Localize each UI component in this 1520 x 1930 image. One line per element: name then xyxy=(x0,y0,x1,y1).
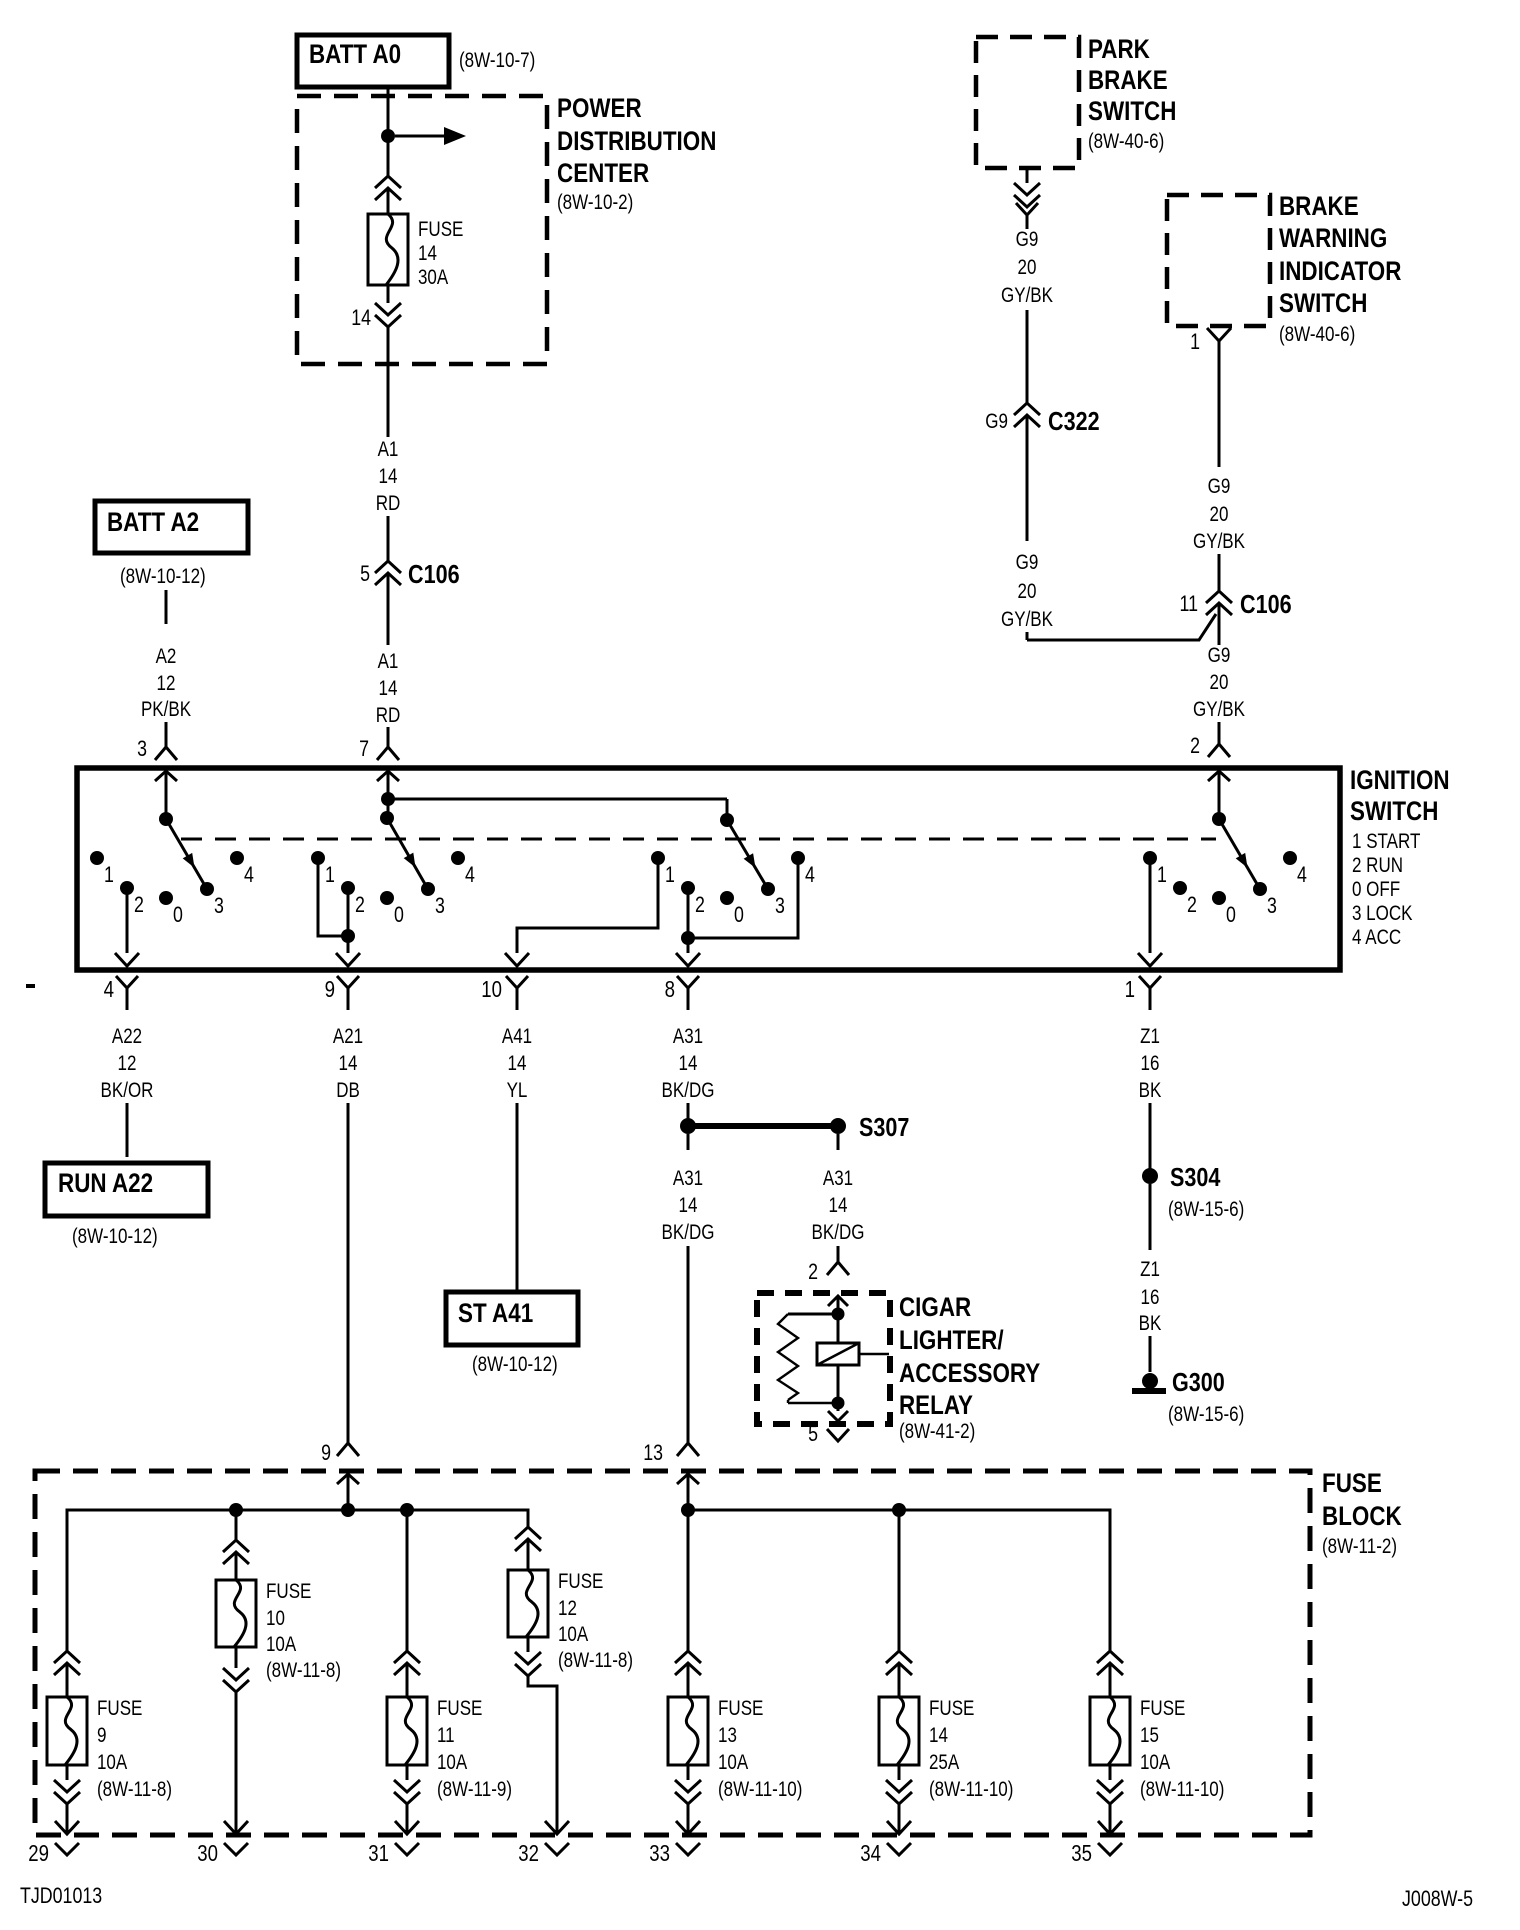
fuse 11 wire to box xyxy=(406,1663,409,1697)
label FUSE 14 25A (8W-11-10) xyxy=(929,1697,1013,1801)
svg-text:YL: YL xyxy=(507,1079,528,1102)
svg-text:13: 13 xyxy=(643,1440,663,1465)
svg-text:(8W-40-6): (8W-40-6) xyxy=(1279,323,1355,346)
wire to C322 xyxy=(1026,310,1029,403)
ignition sw section3 contacts xyxy=(651,851,815,927)
svg-text:32: 32 xyxy=(518,1840,539,1866)
svg-text:7: 7 xyxy=(359,736,369,761)
ignition sw section2 entry male xyxy=(377,771,399,818)
svg-text:BK: BK xyxy=(1139,1079,1162,1102)
fuse 10 wire from bus xyxy=(235,1510,238,1540)
pin label 5 (relay) xyxy=(808,1421,818,1446)
fuse 14 wire from bus xyxy=(898,1510,901,1651)
svg-text:5: 5 xyxy=(808,1421,818,1446)
svg-text:3: 3 xyxy=(214,893,224,918)
fuse 9 wire to box xyxy=(66,1663,69,1697)
svg-text:1: 1 xyxy=(325,862,335,887)
svg-text:10A: 10A xyxy=(718,1751,748,1774)
fuse 10 wire to exit 30 xyxy=(224,1692,248,1834)
wire label G9 20 GY/BK (above ignition) xyxy=(1193,644,1245,721)
svg-text:GY/BK: GY/BK xyxy=(1193,530,1245,553)
svg-text:(8W-15-6): (8W-15-6) xyxy=(1168,1198,1244,1221)
svg-text:20: 20 xyxy=(1018,580,1037,603)
label FUSE 13 10A (8W-11-10) xyxy=(718,1697,802,1801)
svg-text:(8W-11-2): (8W-11-2) xyxy=(1322,1535,1397,1558)
svg-text:11: 11 xyxy=(437,1724,455,1747)
svg-text:FUSE: FUSE xyxy=(97,1697,142,1720)
exit 32 connector xyxy=(518,1840,569,1866)
fuse 11 wire from bus xyxy=(406,1510,409,1651)
svg-text:RD: RD xyxy=(376,704,401,727)
wire label A31 14 BK/DG (left branch) xyxy=(662,1167,715,1244)
svg-text:0: 0 xyxy=(1226,902,1236,927)
svg-text:4: 4 xyxy=(1297,862,1307,887)
svg-text:8: 8 xyxy=(665,976,675,1002)
label POWER DISTRIBUTION CENTER xyxy=(557,93,716,214)
ignition sw section2 pivot xyxy=(380,811,394,825)
ignition sw section3 feed xyxy=(726,799,729,820)
connector male into fuse (double chevron) xyxy=(375,176,401,200)
svg-text:A31: A31 xyxy=(673,1025,703,1048)
pin label 7 xyxy=(359,736,369,761)
exit 30 connector xyxy=(197,1840,248,1866)
bus junction fuse10 xyxy=(229,1503,243,1517)
bus junction entry13-fuse13 xyxy=(681,1503,695,1517)
svg-text:A31: A31 xyxy=(823,1167,853,1190)
ignition sw section4 wire 1 to exit 1 xyxy=(1138,858,1162,966)
wire label A31 14 BK/DG xyxy=(662,1025,715,1102)
svg-text:J008W-5: J008W-5 xyxy=(1402,1886,1473,1911)
reference (8W-15-6) G300 xyxy=(1168,1403,1244,1426)
node label box BATT A0 xyxy=(297,35,449,87)
svg-text:POWER: POWER xyxy=(557,93,642,123)
wire label A21 14 DB xyxy=(333,1025,363,1102)
svg-text:3: 3 xyxy=(1267,893,1277,918)
label S304 xyxy=(1170,1162,1221,1192)
label BRAKE WARNING INDICATOR SWITCH xyxy=(1279,191,1401,346)
svg-text:10A: 10A xyxy=(266,1633,296,1656)
fuse 13 connector lower xyxy=(675,1780,701,1804)
svg-text:BLOCK: BLOCK xyxy=(1322,1501,1402,1531)
fuse 10 wire to box xyxy=(235,1552,238,1580)
wire below park brake switch xyxy=(1026,168,1029,183)
ignition sw section3 wiper to 3 xyxy=(727,820,765,884)
fuse 14 wire to exit 34 xyxy=(887,1804,911,1834)
fuse 12 wire jog to exit 32 xyxy=(528,1676,569,1834)
fuse 14 xyxy=(879,1697,919,1765)
exit pin 4 connector xyxy=(104,976,138,1010)
svg-text:14: 14 xyxy=(829,1194,848,1217)
svg-text:0 OFF: 0 OFF xyxy=(1352,878,1400,901)
svg-text:20: 20 xyxy=(1210,671,1229,694)
ignition sw section2 junction xyxy=(381,792,395,806)
svg-text:9: 9 xyxy=(321,1440,331,1465)
svg-text:S304: S304 xyxy=(1170,1162,1221,1192)
svg-text:INDICATOR: INDICATOR xyxy=(1279,256,1401,286)
exit pin 9 connector xyxy=(325,976,359,1010)
bus junction fuse14 xyxy=(892,1503,906,1517)
svg-text:(8W-10-12): (8W-10-12) xyxy=(472,1353,558,1376)
exit 35 connector xyxy=(1071,1840,1122,1866)
svg-text:1: 1 xyxy=(104,862,114,887)
ignition sw section3 pivot xyxy=(720,813,734,827)
relay pin2 male xyxy=(828,1296,848,1314)
svg-text:(8W-10-7): (8W-10-7) xyxy=(459,49,535,72)
svg-text:20: 20 xyxy=(1018,256,1037,279)
fuse 11 connector upper xyxy=(394,1651,420,1675)
relay top junction xyxy=(832,1308,845,1321)
junction node in PDC xyxy=(381,129,395,143)
ground G300 xyxy=(1132,1373,1166,1394)
svg-text:2: 2 xyxy=(1187,892,1197,917)
svg-text:0: 0 xyxy=(734,902,744,927)
svg-text:2: 2 xyxy=(695,892,705,917)
svg-text:FUSE: FUSE xyxy=(558,1570,603,1593)
label PARK BRAKE SWITCH xyxy=(1088,34,1176,153)
fuse 15 wire to box xyxy=(1109,1663,1112,1697)
svg-text:TJD01013: TJD01013 xyxy=(20,1883,102,1908)
fuse 12 xyxy=(508,1570,548,1637)
svg-text:14: 14 xyxy=(339,1052,358,1075)
svg-text:LIGHTER/: LIGHTER/ xyxy=(899,1325,1004,1355)
svg-text:3: 3 xyxy=(775,893,785,918)
wire below fuse 14 xyxy=(387,285,390,303)
connector female pin 3 xyxy=(155,747,177,760)
connector female relay pin 5 xyxy=(827,1429,849,1441)
svg-text:A41: A41 xyxy=(502,1025,532,1048)
svg-text:Z1: Z1 xyxy=(1140,1025,1160,1048)
exit 31 connector xyxy=(368,1840,419,1866)
svg-text:4: 4 xyxy=(104,976,115,1002)
connector female below brake warning switch xyxy=(1207,328,1231,351)
relay resistor xyxy=(778,1314,832,1403)
connector female pin 7 xyxy=(377,747,399,760)
svg-text:35: 35 xyxy=(1071,1840,1092,1866)
pin label 1 (brake warning) xyxy=(1190,329,1200,354)
svg-text:BRAKE: BRAKE xyxy=(1279,191,1359,221)
svg-text:Z1: Z1 xyxy=(1140,1258,1160,1281)
svg-text:SWITCH: SWITCH xyxy=(1088,96,1176,126)
connector female pin 2 xyxy=(1208,744,1230,757)
ignition sw section2 wiper to 3 xyxy=(387,818,425,884)
svg-text:FUSE: FUSE xyxy=(929,1697,974,1720)
ignition sw section4 pivot xyxy=(1212,812,1226,826)
svg-text:(8W-11-8): (8W-11-8) xyxy=(97,1778,172,1801)
svg-text:4: 4 xyxy=(805,862,815,887)
label FUSE 10 10A (8W-11-8) xyxy=(266,1580,341,1682)
connector C106 (pin 5) xyxy=(375,561,401,585)
svg-text:DB: DB xyxy=(336,1079,360,1102)
fuse 13 wire to box xyxy=(687,1663,690,1697)
svg-text:12: 12 xyxy=(157,672,176,695)
exit pin 10 connector xyxy=(481,976,528,1010)
fuse 15 connector lower xyxy=(1097,1780,1123,1804)
ignition sw section4 wiper to 3 xyxy=(1219,819,1257,884)
reference (8W-10-12) under RUN A22 xyxy=(72,1225,158,1248)
fuse block right bus xyxy=(688,1510,1110,1651)
wire label G9 20 GY/BK (right) xyxy=(1193,475,1245,553)
pin label 11 xyxy=(1180,591,1199,616)
wire S304 to G300 xyxy=(1149,1184,1152,1250)
label FUSE BLOCK xyxy=(1322,1468,1402,1558)
wire PDC to C106 xyxy=(387,327,390,437)
pin label 2 xyxy=(1190,733,1200,758)
node label box ST A41 xyxy=(446,1292,578,1345)
svg-text:34: 34 xyxy=(860,1840,881,1866)
svg-text:12: 12 xyxy=(558,1597,577,1620)
label FUSE 11 10A (8W-11-9) xyxy=(437,1697,512,1801)
ignition switch box xyxy=(77,768,1340,970)
fuse 14 30A (PDC) xyxy=(368,214,408,285)
relay coil xyxy=(817,1320,889,1397)
connector female relay pin 2 xyxy=(827,1262,849,1275)
svg-text:(8W-11-10): (8W-11-10) xyxy=(929,1778,1013,1801)
pin label 2 (relay) xyxy=(808,1259,818,1284)
fuse 11 xyxy=(387,1697,427,1765)
svg-text:5: 5 xyxy=(360,561,370,586)
svg-text:25A: 25A xyxy=(929,1751,959,1774)
svg-text:G9: G9 xyxy=(1208,475,1231,498)
splice S304 xyxy=(1142,1168,1158,1184)
cigar lighter relay dashed box xyxy=(757,1293,890,1424)
fuse block left bus xyxy=(67,1510,528,1651)
fuse 13 xyxy=(668,1697,708,1765)
exit 33 connector xyxy=(649,1840,700,1866)
wire label G9 20 GY/BK (below C322) xyxy=(1001,551,1053,631)
connector out of PDC (double chevron down) xyxy=(375,303,401,327)
svg-text:31: 31 xyxy=(368,1840,389,1866)
wire into ignition pin 3 xyxy=(165,722,168,747)
svg-text:S307: S307 xyxy=(859,1112,909,1142)
fuse 9 connector lower xyxy=(54,1780,80,1804)
ignition sw section1 wire 2 to exit 4 xyxy=(115,888,139,966)
wire label A1 14 RD xyxy=(376,438,401,515)
svg-text:14: 14 xyxy=(679,1052,698,1075)
wire label Z1 16 BK (lower) xyxy=(1139,1258,1162,1335)
svg-text:2: 2 xyxy=(808,1259,818,1284)
label G300 xyxy=(1172,1367,1225,1397)
wire into G300 xyxy=(1149,1336,1152,1372)
svg-text:2 RUN: 2 RUN xyxy=(1352,854,1403,877)
svg-text:2: 2 xyxy=(134,892,144,917)
svg-text:FUSE: FUSE xyxy=(718,1697,763,1720)
fuse 12 connector lower xyxy=(515,1652,541,1676)
svg-text:C106: C106 xyxy=(1240,589,1292,619)
svg-text:13: 13 xyxy=(718,1724,737,1747)
wire label A1 14 RD (lower) xyxy=(376,650,401,727)
svg-text:BATT A0: BATT A0 xyxy=(309,39,401,69)
label FUSE 9 10A (8W-11-8) xyxy=(97,1697,172,1801)
wire elbow to C106 pin 11 xyxy=(1027,614,1216,640)
wire C106 to ignition switch xyxy=(387,573,390,645)
svg-text:2: 2 xyxy=(1190,733,1200,758)
svg-text:4: 4 xyxy=(244,862,254,887)
svg-text:(8W-10-2): (8W-10-2) xyxy=(557,191,633,214)
svg-text:10A: 10A xyxy=(97,1751,127,1774)
fuse 10 connector lower xyxy=(223,1668,249,1692)
svg-text:(8W-11-8): (8W-11-8) xyxy=(558,1649,633,1672)
svg-text:FUSE: FUSE xyxy=(1322,1468,1382,1498)
reference (8W-10-12) under BATT A2 xyxy=(120,565,206,588)
ignition sw section2 feed line to section3 xyxy=(388,798,727,801)
svg-text:1: 1 xyxy=(665,862,675,887)
sheet number J008W-5 xyxy=(1402,1886,1473,1911)
svg-text:G300: G300 xyxy=(1172,1367,1225,1397)
relay bottom junction xyxy=(832,1397,845,1410)
wire to S304 xyxy=(1149,1103,1152,1170)
svg-text:GY/BK: GY/BK xyxy=(1001,284,1053,307)
fuse 12 connector upper xyxy=(515,1527,541,1551)
label S307 xyxy=(859,1112,909,1142)
svg-text:10A: 10A xyxy=(1140,1751,1170,1774)
wire C106 pin 11 to ignition pin 2 xyxy=(1218,603,1221,744)
fuse 10 xyxy=(216,1580,256,1647)
svg-text:3: 3 xyxy=(435,893,445,918)
svg-text:20: 20 xyxy=(1210,503,1229,526)
svg-text:BK/OR: BK/OR xyxy=(101,1079,154,1102)
svg-text:C106: C106 xyxy=(408,559,460,589)
svg-text:RD: RD xyxy=(376,492,401,515)
label C106 xyxy=(408,559,460,589)
fuse 9 connector upper xyxy=(54,1651,80,1675)
fuse 15 wire to exit 35 xyxy=(1098,1804,1122,1834)
svg-text:(8W-15-6): (8W-15-6) xyxy=(1168,1403,1244,1426)
wire A21 to fuse block xyxy=(347,1103,350,1443)
svg-text:0: 0 xyxy=(173,902,183,927)
power distribution center dashed box xyxy=(297,96,547,364)
brake warning indicator switch dashed box xyxy=(1167,195,1270,326)
label switch positions xyxy=(1352,830,1421,949)
svg-text:3: 3 xyxy=(137,736,147,761)
svg-text:9: 9 xyxy=(325,976,335,1002)
svg-text:BATT A2: BATT A2 xyxy=(107,507,199,537)
fuse 15 xyxy=(1090,1697,1130,1765)
exit 29 connector xyxy=(28,1840,79,1866)
svg-text:G9: G9 xyxy=(1016,228,1039,251)
wire S307 down right branch xyxy=(837,1134,840,1150)
svg-text:(8W-41-2): (8W-41-2) xyxy=(899,1420,975,1443)
label FUSE 15 10A (8W-11-10) xyxy=(1140,1697,1224,1801)
svg-text:1: 1 xyxy=(1125,976,1135,1002)
fuse 9 xyxy=(47,1697,87,1765)
ignition sw section1 pivot xyxy=(159,812,173,826)
svg-text:FUSE: FUSE xyxy=(1140,1697,1185,1720)
svg-text:3 LOCK: 3 LOCK xyxy=(1352,902,1413,925)
svg-text:ST A41: ST A41 xyxy=(458,1298,533,1328)
svg-text:RUN A22: RUN A22 xyxy=(58,1168,153,1198)
fuse 13 wire to exit 33 xyxy=(676,1804,700,1834)
svg-text:BK/DG: BK/DG xyxy=(812,1221,865,1244)
wire into ignition pin 7 xyxy=(387,727,390,747)
fuse block entry 13 connector xyxy=(643,1440,699,1510)
svg-text:GY/BK: GY/BK xyxy=(1193,698,1245,721)
svg-text:14: 14 xyxy=(379,677,398,700)
svg-text:(8W-11-10): (8W-11-10) xyxy=(1140,1778,1224,1801)
fuse block entry 9 connector xyxy=(321,1440,359,1510)
svg-text:G9: G9 xyxy=(1208,644,1231,667)
wire S307 down left branch xyxy=(687,1134,690,1150)
fuse 10 wire below xyxy=(235,1647,238,1668)
ignition sw section2 wire 1-2 to exit 9 xyxy=(318,858,360,966)
svg-text:BK: BK xyxy=(1139,1312,1162,1335)
label FUSE 12 10A (8W-11-8) xyxy=(558,1570,633,1672)
svg-text:12: 12 xyxy=(118,1052,137,1075)
arrow to other circuits xyxy=(395,127,466,145)
svg-text:(8W-11-10): (8W-11-10) xyxy=(718,1778,802,1801)
svg-text:14: 14 xyxy=(379,465,398,488)
svg-text:RELAY: RELAY xyxy=(899,1390,973,1420)
svg-text:33: 33 xyxy=(649,1840,670,1866)
label CIGAR LIGHTER ACCESSORY RELAY xyxy=(899,1292,1040,1443)
wire label A31 14 BK/DG (relay branch) xyxy=(812,1167,865,1244)
fuse 13 wire below xyxy=(687,1765,690,1780)
fuse 15 wire below xyxy=(1109,1765,1112,1780)
fuse 11 wire to exit 31 xyxy=(395,1804,419,1834)
fuse block dashed box xyxy=(35,1471,1310,1835)
svg-text:0: 0 xyxy=(394,902,404,927)
splice S307 bus xyxy=(680,1118,846,1134)
wire to connector C106 xyxy=(387,516,390,561)
wire label A41 14 YL xyxy=(502,1025,532,1102)
svg-text:BK/DG: BK/DG xyxy=(662,1079,715,1102)
svg-text:FUSE: FUSE xyxy=(266,1580,311,1603)
pin label 5 xyxy=(360,561,370,586)
svg-text:10A: 10A xyxy=(437,1751,467,1774)
svg-text:29: 29 xyxy=(28,1840,49,1866)
connector C106 pin 11 xyxy=(1206,591,1232,615)
svg-text:A1: A1 xyxy=(378,650,399,673)
exit pin 1 connector xyxy=(1125,976,1161,1010)
fuse 10 connector upper xyxy=(223,1540,249,1564)
drawing number TJD01013 xyxy=(20,1883,102,1908)
svg-text:1: 1 xyxy=(1157,862,1167,887)
fuse 14 connector upper xyxy=(886,1651,912,1675)
label C322 xyxy=(1048,406,1100,436)
svg-text:DISTRIBUTION: DISTRIBUTION xyxy=(557,126,716,156)
svg-text:14: 14 xyxy=(929,1724,948,1747)
svg-text:(8W-11-9): (8W-11-9) xyxy=(437,1778,512,1801)
ignition switch internal dashed line xyxy=(181,838,1216,841)
svg-text:A21: A21 xyxy=(333,1025,363,1048)
svg-text:10: 10 xyxy=(266,1607,285,1630)
node label box RUN A22 xyxy=(45,1163,208,1216)
bus junction fuse11 xyxy=(400,1503,414,1517)
svg-text:WARNING: WARNING xyxy=(1279,223,1387,253)
fuse 12 wire below xyxy=(527,1637,530,1652)
svg-text:PARK: PARK xyxy=(1088,34,1150,64)
connector C322 xyxy=(1014,403,1040,427)
svg-text:(8W-11-8): (8W-11-8) xyxy=(266,1659,341,1682)
svg-text:1: 1 xyxy=(1190,329,1200,354)
ignition sw section2 contacts xyxy=(311,851,475,927)
exit 34 connector xyxy=(860,1840,911,1866)
ignition sw section3 wire 2-4 to exit 8 xyxy=(676,858,798,966)
wire to splice S307 xyxy=(687,1103,690,1126)
fuse 11 connector lower xyxy=(394,1780,420,1804)
fuse 14 wire below xyxy=(898,1765,901,1780)
wire label A22 12 BK/OR xyxy=(101,1025,154,1102)
svg-text:4 ACC: 4 ACC xyxy=(1352,926,1401,949)
svg-text:PK/BK: PK/BK xyxy=(141,698,191,721)
fuse 15 connector upper xyxy=(1097,1651,1123,1675)
wire to C106 pin 11 xyxy=(1218,554,1221,591)
svg-text:C322: C322 xyxy=(1048,406,1100,436)
wire to relay pin 2 xyxy=(837,1246,840,1262)
reference (8W-10-12) under ST A41 xyxy=(472,1353,558,1376)
fuse 14 connector lower xyxy=(886,1780,912,1804)
wire BATT A2 down xyxy=(165,590,168,624)
fuse 9 wire below xyxy=(66,1765,69,1780)
